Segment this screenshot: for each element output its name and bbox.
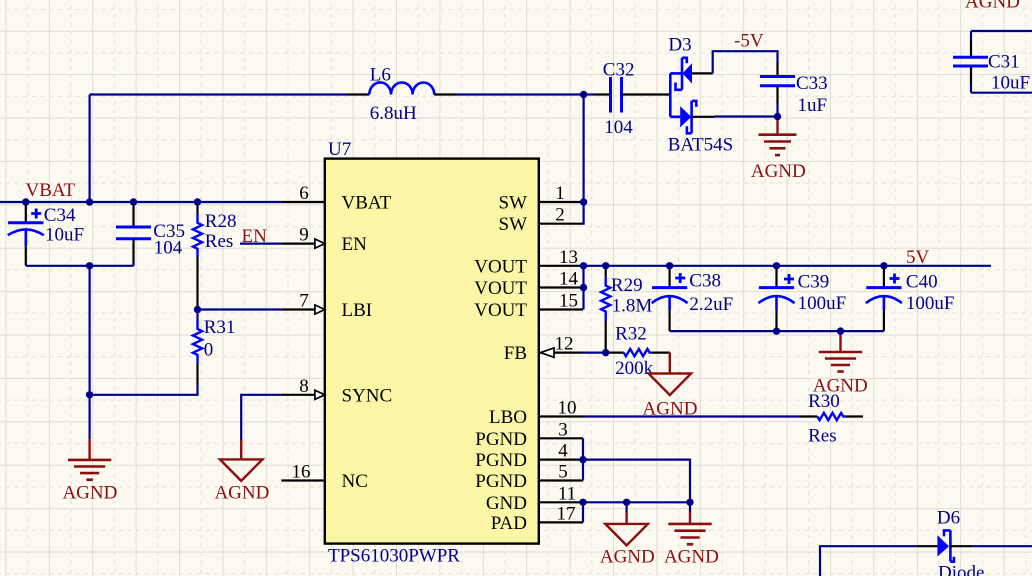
wire SW node down to pins 1 and 2 <box>582 95 584 224</box>
svg-text:LBI: LBI <box>342 300 373 321</box>
svg-text:BAT54S: BAT54S <box>668 135 733 156</box>
junction SW pin 1 <box>580 198 587 205</box>
svg-text:FB: FB <box>504 343 527 364</box>
junction GND earth tap <box>686 499 693 506</box>
svg-text:SW: SW <box>499 193 528 214</box>
pin 11 GND <box>486 483 583 514</box>
pin 8 SYNC <box>281 376 392 407</box>
svg-text:Res: Res <box>205 231 234 252</box>
svg-text:5V: 5V <box>906 247 930 268</box>
ground AGND triangle below GND wire <box>600 502 655 567</box>
resistor R30 Res <box>800 391 864 447</box>
ground AGND below C33 <box>751 117 806 183</box>
svg-text:C39: C39 <box>798 272 830 293</box>
ground AGND triangle below SYNC <box>214 440 269 504</box>
wire VOUT rail 5V <box>583 265 991 267</box>
svg-text:VOUT: VOUT <box>474 256 527 277</box>
svg-text:13: 13 <box>559 247 578 268</box>
pin 1 SW <box>499 183 584 214</box>
junction VBAT R28 <box>194 198 201 205</box>
pin 12 FB <box>504 334 583 365</box>
wire R31 bottom to ground riser <box>90 385 198 395</box>
wire PGND to GND node <box>583 460 690 503</box>
svg-text:C38: C38 <box>689 271 721 292</box>
wire VBAT rail <box>0 201 281 203</box>
wire D6 to right edge <box>972 545 1032 547</box>
wire FB to R29 node <box>583 352 606 354</box>
svg-text:7: 7 <box>299 291 309 312</box>
svg-text:AGND: AGND <box>965 0 1020 13</box>
svg-text:9: 9 <box>299 225 309 246</box>
pin 5 PGND <box>475 462 583 493</box>
resistor R32 200k <box>606 324 670 380</box>
svg-text:3: 3 <box>558 419 568 440</box>
svg-text:0: 0 <box>204 340 214 361</box>
svg-text:2: 2 <box>555 205 565 226</box>
junction VOUT pin 14 <box>580 284 587 291</box>
capacitor C40 100uF polarized <box>866 266 955 331</box>
svg-text:C33: C33 <box>796 73 828 94</box>
svg-text:14: 14 <box>559 269 579 290</box>
svg-text:100uF: 100uF <box>906 293 955 314</box>
svg-text:R31: R31 <box>204 317 236 338</box>
pin 16 NC <box>281 462 368 493</box>
svg-text:D6: D6 <box>937 508 960 529</box>
op-amp U7 body TPS61030PWPR <box>325 159 539 544</box>
svg-text:D3: D3 <box>668 35 691 56</box>
pin 4 PGND <box>475 441 583 472</box>
svg-text:VOUT: VOUT <box>474 278 527 299</box>
junction VOUT R29 <box>602 262 609 269</box>
svg-text:SYNC: SYNC <box>342 385 393 406</box>
junction VOUT C40 <box>880 262 887 269</box>
capacitor C38 2.2uF polarized <box>652 266 734 331</box>
svg-text:6: 6 <box>299 183 309 204</box>
junction VOUT pin 13 <box>580 262 587 269</box>
pin 9 EN <box>281 225 367 256</box>
junction cap rail C39 <box>773 327 780 334</box>
pin 15 VOUT <box>474 291 583 322</box>
junction GND triangle tap <box>623 499 630 506</box>
svg-text:AGND: AGND <box>62 483 117 504</box>
junction C33 bottom <box>774 113 781 120</box>
svg-text:15: 15 <box>559 291 578 312</box>
svg-text:EN: EN <box>342 234 368 255</box>
svg-text:AGND: AGND <box>664 547 719 568</box>
wire LBI node to pin 7 <box>198 308 282 310</box>
wire D6 branch <box>820 546 917 576</box>
wire vertical VBAT riser <box>88 95 90 203</box>
svg-text:PGND: PGND <box>475 471 527 492</box>
svg-text:10: 10 <box>558 398 577 419</box>
svg-text:11: 11 <box>558 483 576 504</box>
ground AGND earth below GND wire <box>664 502 719 567</box>
capacitor C34 10uF polarized <box>8 205 84 266</box>
ground AGND earth bottom left <box>62 439 117 503</box>
junction VBAT C34 <box>22 198 29 205</box>
pin 17 PAD <box>491 503 583 534</box>
svg-text:R29: R29 <box>611 275 643 296</box>
capacitor C32 104 <box>595 60 671 139</box>
wire LBO to R30 <box>583 415 800 417</box>
svg-text:NC: NC <box>342 471 368 492</box>
svg-text:200k: 200k <box>615 358 654 379</box>
inductor L6 6.8uH <box>348 65 456 124</box>
junction VBAT C35 <box>130 198 137 205</box>
svg-text:C34: C34 <box>44 205 76 226</box>
svg-text:GND: GND <box>486 493 527 514</box>
svg-text:4: 4 <box>558 441 568 462</box>
ground AGND earth below cap rail <box>813 331 868 396</box>
junction PGND pin 4 <box>579 456 586 463</box>
pin 13 VOUT <box>474 247 583 278</box>
junction FB R29 R32 <box>602 349 609 356</box>
capacitor C33 1uF <box>760 62 828 117</box>
svg-text:LBO: LBO <box>489 407 527 428</box>
svg-text:VBAT: VBAT <box>342 193 392 214</box>
resistor R28 Res <box>193 202 237 310</box>
svg-text:AGND: AGND <box>751 161 806 182</box>
junction VOUT C39 <box>773 262 780 269</box>
wire SW node to C32 <box>584 93 595 95</box>
wire VOUT pins tie <box>582 266 584 310</box>
pin 3 PGND <box>475 419 583 450</box>
junction SW top <box>580 91 587 98</box>
svg-text:Diode: Diode <box>938 563 984 576</box>
svg-text:1: 1 <box>555 183 565 204</box>
wire GND PAD pins tie <box>582 502 584 522</box>
wire PGND pins tie <box>582 438 584 480</box>
capacitor C31 10uF <box>953 31 1032 94</box>
resistor R31 0 <box>193 310 235 385</box>
wire C34 C35 bottom tie <box>26 265 134 267</box>
pin 6 VBAT <box>281 183 391 214</box>
junction VBAT riser <box>86 198 93 205</box>
svg-text:R32: R32 <box>615 324 647 345</box>
svg-text:TPS61030PWPR: TPS61030PWPR <box>328 546 460 567</box>
svg-text:16: 16 <box>292 462 311 483</box>
svg-text:17: 17 <box>557 503 576 524</box>
pin 14 VOUT <box>474 269 583 300</box>
capacitor C39 100uF polarized <box>759 266 847 331</box>
junction VOUT C38 <box>666 262 673 269</box>
resistor R29 1.8M <box>601 266 652 353</box>
svg-text:-5V: -5V <box>734 31 764 52</box>
wire ground riser left <box>88 266 90 439</box>
svg-text:R28: R28 <box>205 211 237 232</box>
svg-text:AGND: AGND <box>214 483 269 504</box>
svg-text:1.8M: 1.8M <box>612 296 653 317</box>
wire top horizontal to L6 <box>90 93 348 95</box>
capacitor C35 104 <box>116 205 185 266</box>
svg-text:U7: U7 <box>328 139 351 160</box>
wire D3 lower cathode to C33 bottom node <box>714 115 777 117</box>
svg-text:C32: C32 <box>603 60 635 81</box>
junction LBI R28 R31 <box>194 306 201 313</box>
svg-text:10uF: 10uF <box>991 73 1030 94</box>
svg-text:1uF: 1uF <box>798 95 828 116</box>
svg-text:R30: R30 <box>808 391 840 412</box>
svg-text:8: 8 <box>299 376 309 397</box>
svg-text:5: 5 <box>558 462 568 483</box>
svg-text:2.2uF: 2.2uF <box>689 294 733 315</box>
svg-text:SW: SW <box>499 214 528 235</box>
svg-text:PGND: PGND <box>475 450 527 471</box>
svg-text:PGND: PGND <box>475 429 527 450</box>
wire GND node horizontal <box>583 501 690 503</box>
svg-text:100uF: 100uF <box>798 293 847 314</box>
svg-text:104: 104 <box>604 117 633 138</box>
pin 10 LBO <box>489 398 583 429</box>
junction cap rail ground <box>837 327 844 334</box>
wire L6 to SW node <box>456 93 584 95</box>
svg-text:10uF: 10uF <box>45 224 84 245</box>
wire capacitor bottom rail <box>670 330 884 332</box>
junction ground riser R31 <box>86 391 93 398</box>
wire EN to pin 9 <box>240 243 281 245</box>
svg-text:AGND: AGND <box>600 547 655 568</box>
wire SYNC to pin 8 <box>241 395 281 440</box>
junction GND pin 11 <box>579 499 586 506</box>
wire D3 anode up to -5V rail <box>713 51 778 73</box>
svg-text:PAD: PAD <box>491 513 527 534</box>
ground AGND triangle below R32 <box>643 353 698 420</box>
transistor-style dual diode D3 BAT54S <box>668 35 733 156</box>
svg-text:Res: Res <box>808 426 837 447</box>
svg-text:C31: C31 <box>988 52 1020 73</box>
pin 2 SW <box>499 205 584 236</box>
svg-text:C40: C40 <box>906 272 938 293</box>
svg-text:VBAT: VBAT <box>26 180 76 201</box>
junction C34 bottom <box>86 262 93 269</box>
diode D6 Diode <box>917 508 985 576</box>
svg-text:6.8uH: 6.8uH <box>370 103 417 124</box>
svg-text:104: 104 <box>154 238 183 259</box>
pin 7 LBI <box>281 291 372 322</box>
svg-text:12: 12 <box>555 334 574 355</box>
svg-text:VOUT: VOUT <box>474 300 527 321</box>
svg-text:L6: L6 <box>370 65 391 86</box>
